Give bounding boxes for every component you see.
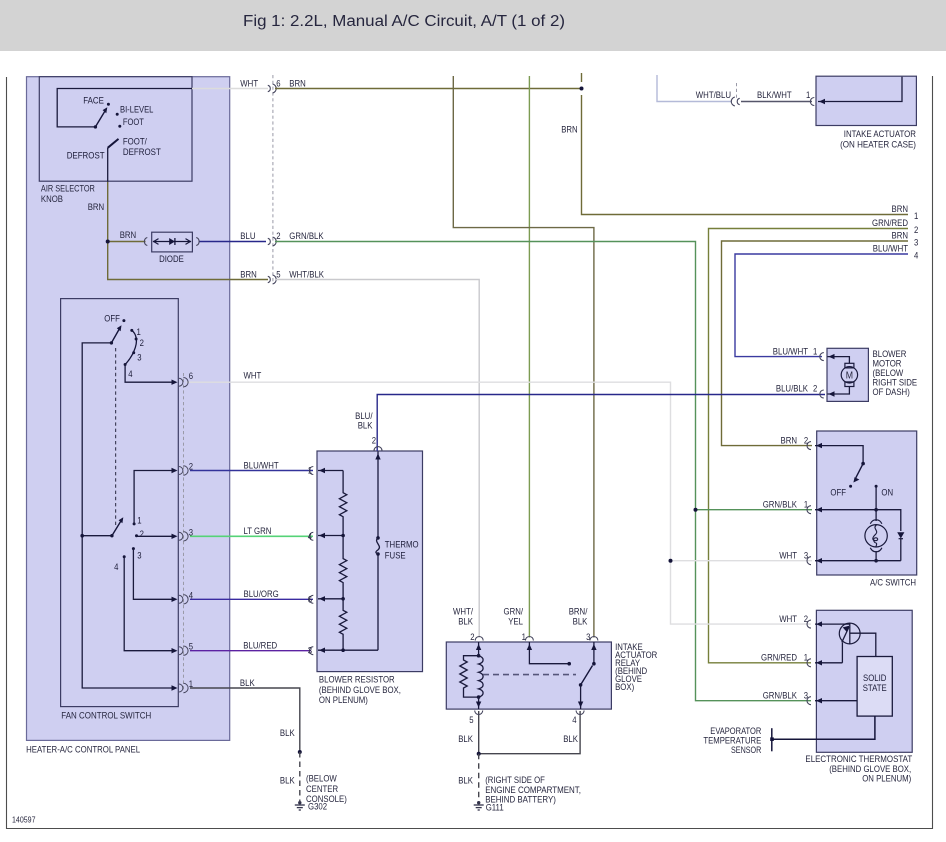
svg-text:FOOT: FOOT (123, 117, 144, 127)
wire WHT from fan switch to a/c switch and thermostat (187, 371, 813, 624)
resistor R2 (339, 536, 346, 599)
svg-text:ON: ON (881, 488, 893, 498)
wire BLK fan switch to ground G302 (190, 678, 300, 752)
wire BRN/BLK from top to relay pin 3 (453, 76, 594, 638)
fuse thermo fuse (376, 536, 419, 560)
pin ac switch 1 label (763, 499, 809, 509)
svg-text:SENSOR: SENSOR (731, 745, 762, 755)
svg-text:5: 5 (276, 270, 280, 280)
svg-text:TEMPERATURE: TEMPERATURE (703, 736, 761, 746)
svg-text:1: 1 (914, 211, 918, 221)
pin thermostat 2 label (779, 614, 808, 624)
motor M1 (841, 363, 857, 386)
connector ac switch pin 1 (807, 506, 811, 514)
wire GRN/YEL vertical to relay pin 1 (528, 76, 530, 638)
connector C2 arcs (731, 97, 739, 106)
svg-text:KNOB: KNOB (41, 194, 63, 204)
svg-text:6: 6 (189, 371, 193, 381)
wire motor pin1 internal (828, 354, 850, 363)
svg-text:4: 4 (128, 369, 132, 379)
svg-text:BLU/: BLU/ (355, 411, 373, 421)
wire relay pin3 to contact (591, 642, 596, 666)
pin motor 2 label (776, 384, 817, 394)
pin thermostat 1 label (761, 653, 808, 663)
wire ac switch pin3 internal (815, 558, 901, 563)
svg-text:3: 3 (308, 646, 312, 656)
svg-text:GRN/RED: GRN/RED (761, 653, 797, 663)
svg-text:WHT/BLK: WHT/BLK (289, 270, 324, 280)
node BLK splice G302 (298, 750, 302, 754)
transistor Q1 (839, 623, 876, 663)
connector resistor pin 6 (308, 594, 314, 604)
wire resistor pin6 entry (318, 596, 345, 601)
switch SW4 a/c (830, 462, 893, 498)
svg-text:3: 3 (804, 690, 808, 700)
ground G111 (474, 775, 581, 812)
coil relay L1 (479, 656, 484, 697)
svg-text:(BEHIND GLOVE BOX,: (BEHIND GLOVE BOX, (319, 685, 401, 695)
svg-text:WHT/: WHT/ (453, 606, 473, 616)
wire ac switch pin1 internal (815, 507, 901, 531)
node WHT junction (669, 559, 673, 563)
svg-text:3: 3 (137, 551, 141, 561)
connector fan switch pin 6 (179, 371, 193, 387)
wire BLK dashed to ground G111 (458, 754, 479, 801)
svg-text:FACE: FACE (83, 96, 104, 106)
svg-text:Fig 1: 2.2L, Manual A/C Circui: Fig 1: 2.2L, Manual A/C Circuit, A/T (1 … (243, 13, 565, 30)
connector C1 pin 5 arcs (268, 275, 276, 284)
svg-text:6: 6 (276, 78, 280, 88)
pin motor 1 label (773, 346, 818, 356)
resistor relay shunt (460, 656, 479, 697)
resistor R3 (339, 599, 346, 650)
blower resistor box (317, 451, 423, 705)
wire fan switch common rail (80, 343, 177, 691)
wire BRN from right edge to a/c switch pin 2 (722, 231, 919, 446)
svg-text:4: 4 (114, 562, 118, 572)
svg-text:(BEHIND GLOVE BOX,: (BEHIND GLOVE BOX, (829, 764, 911, 774)
svg-text:4: 4 (914, 251, 918, 261)
switch SW1 air selector wiper (94, 107, 108, 128)
svg-text:WHT: WHT (244, 371, 262, 381)
svg-text:GRN/BLK: GRN/BLK (763, 499, 798, 509)
wire ac switch pin2 internal (815, 443, 863, 464)
svg-text:CENTER: CENTER (306, 784, 338, 794)
wire intake actuator internal (818, 77, 902, 104)
svg-text:2: 2 (189, 462, 193, 472)
wire fan lower contact1 to pin 2 (134, 468, 177, 524)
svg-text:BRN: BRN (561, 125, 578, 135)
svg-text:BRN/: BRN/ (569, 606, 588, 616)
lamp a/c indicator (865, 510, 887, 563)
intake actuator box (816, 76, 916, 149)
switch SW3 fan rotary lower (110, 516, 144, 573)
connector ac switch pin 2 (807, 442, 811, 450)
pin ac switch 3 label (779, 550, 808, 560)
wire relay mechanical link dashed (483, 674, 576, 676)
connector C2 dashed stub (736, 83, 738, 100)
connector C1 pin 2 arcs (268, 237, 276, 246)
connector resistor pin 4 (308, 531, 314, 541)
connector resistor pin 1 (308, 466, 314, 476)
svg-text:THERMO: THERMO (385, 540, 419, 550)
solid state module (857, 657, 892, 717)
svg-text:1: 1 (806, 90, 810, 100)
connector thermostat pin 1 (807, 659, 811, 667)
connector fan switch pin 4 (179, 590, 193, 604)
svg-text:GRN/BLK: GRN/BLK (289, 231, 324, 241)
node BRN diode junction (106, 240, 110, 244)
wire fan lower contact3 to pin 4 (133, 549, 177, 602)
svg-text:4: 4 (572, 715, 576, 725)
wire BLU/ORG fan switch to resistor pin 6 (190, 589, 313, 599)
svg-text:ON PLENUM): ON PLENUM) (319, 695, 368, 705)
wire thermostat pin1 internal (815, 660, 842, 665)
svg-text:5: 5 (469, 715, 473, 725)
connector motor pin 2 (820, 390, 824, 398)
svg-text:BLK: BLK (458, 776, 473, 786)
wire BRN dashed stub up (581, 73, 583, 82)
svg-text:HEATER-A/C CONTROL PANEL: HEATER-A/C CONTROL PANEL (26, 745, 140, 755)
svg-text:3: 3 (137, 353, 141, 363)
svg-text:BLK: BLK (573, 616, 588, 626)
resistor R1 (339, 471, 346, 536)
svg-text:BOX): BOX) (615, 682, 634, 692)
wire GRN/RED from right edge to thermostat pin 1 (709, 218, 919, 663)
air selector knob box (39, 77, 192, 204)
wire BLU/WHT from right edge to blower motor pin 1 (735, 244, 918, 357)
fan control switch box (61, 299, 179, 721)
node BI-LEVEL contact (116, 105, 154, 116)
svg-text:GRN/BLK: GRN/BLK (763, 690, 798, 700)
wire BLU from diode to connector C1 (199, 231, 266, 241)
svg-text:6: 6 (308, 594, 312, 604)
svg-text:LT GRN: LT GRN (244, 526, 272, 536)
wire BLU/WHT fan switch to resistor pin 1 (190, 460, 313, 470)
svg-text:2: 2 (804, 435, 808, 445)
connector thermostat pin 3 (807, 697, 811, 705)
svg-text:OFF: OFF (830, 488, 846, 498)
wire BLU/RED fan switch to resistor pin 3 (190, 641, 311, 651)
svg-text:BLU: BLU (240, 231, 255, 241)
svg-text:BLK: BLK (358, 421, 373, 431)
svg-text:1: 1 (813, 346, 817, 356)
svg-text:WHT: WHT (779, 550, 797, 560)
wire WHT/BLU top right (657, 75, 732, 102)
connector relay pin 5 (469, 711, 483, 726)
connector fan switch pin 3 (179, 527, 193, 541)
connector ac switch pin 3 (807, 557, 811, 565)
svg-text:BLU/ORG: BLU/ORG (244, 589, 279, 599)
svg-text:BLK: BLK (563, 734, 578, 744)
svg-text:1: 1 (522, 632, 526, 642)
connector relay pin 4 (572, 711, 584, 726)
svg-text:1: 1 (804, 499, 808, 509)
connector relay pin 3 (569, 606, 598, 642)
svg-text:BRN: BRN (88, 202, 105, 212)
svg-text:BRN: BRN (892, 204, 909, 214)
svg-text:SOLID: SOLID (863, 673, 887, 683)
svg-text:1: 1 (804, 653, 808, 663)
wire relay coil to pin 5 (476, 695, 481, 709)
svg-text:BRN: BRN (781, 435, 798, 445)
switch SW2 fan rotary upper (104, 314, 144, 380)
svg-text:2: 2 (813, 384, 817, 394)
svg-text:BRN: BRN (120, 230, 137, 240)
svg-text:1: 1 (137, 327, 141, 337)
svg-text:3: 3 (804, 550, 808, 560)
connector fan switch dashed harness line (183, 373, 185, 691)
a/c switch box (817, 431, 917, 588)
svg-text:GRN/: GRN/ (504, 606, 524, 616)
svg-text:2: 2 (470, 632, 474, 642)
svg-text:2: 2 (140, 529, 144, 539)
connector relay pin 2 (453, 606, 483, 642)
heater-a/c control panel box (26, 77, 230, 755)
wire ac switch ON to pin1 rail (874, 486, 878, 511)
svg-text:140597: 140597 (12, 815, 36, 825)
connector fan switch pin 5 (179, 642, 193, 656)
wire BLK/WHT to intake actuator (741, 90, 812, 102)
svg-text:2: 2 (914, 225, 918, 235)
svg-text:BLU/RED: BLU/RED (243, 641, 277, 651)
wire BRN from connector to junction (275, 78, 582, 88)
svg-text:3: 3 (189, 527, 193, 537)
connector C1 pin 6 arcs (268, 84, 276, 93)
svg-text:MOTOR: MOTOR (873, 359, 902, 369)
wire BLK dashed to ground G302 (280, 752, 300, 801)
svg-text:1: 1 (189, 679, 193, 689)
node FACE contact (83, 96, 110, 106)
svg-text:BLK: BLK (280, 728, 295, 738)
svg-text:(RIGHT SIDE OF: (RIGHT SIDE OF (485, 775, 545, 785)
svg-text:BLK: BLK (458, 616, 473, 626)
connector C1 dashed harness line (272, 75, 274, 284)
wire relay coil feed (476, 642, 481, 658)
svg-text:2: 2 (804, 614, 808, 624)
svg-text:BLOWER: BLOWER (873, 349, 907, 359)
svg-text:RIGHT SIDE: RIGHT SIDE (873, 378, 918, 388)
wire WHT from air selector to connector C1 (192, 78, 268, 88)
svg-text:3: 3 (586, 632, 590, 642)
wire fan switch contact4 to pin 6 (125, 365, 177, 385)
wire LT GRN fan switch to resistor pin 4 (190, 526, 313, 536)
wire BLU/BLK from blower resistor to blower motor (355, 395, 825, 452)
svg-text:BLU/WHT: BLU/WHT (773, 346, 808, 356)
wire resistor pin2 entry vertical (375, 452, 380, 651)
svg-text:(ON HEATER CASE): (ON HEATER CASE) (840, 140, 916, 150)
wire fan lower contact2 to pin 3 (137, 534, 178, 539)
svg-text:INTAKE ACTUATOR: INTAKE ACTUATOR (844, 129, 916, 139)
svg-text:WHT: WHT (240, 78, 258, 88)
wire BLK relay pin 5 to ground G111 (458, 711, 479, 754)
svg-text:2: 2 (372, 436, 376, 446)
node BRN junction top (580, 87, 584, 91)
wire BRN defrost to diode and connector (88, 182, 268, 280)
svg-text:DEFROST: DEFROST (123, 147, 161, 157)
svg-text:BRN: BRN (240, 270, 256, 280)
svg-text:BLK: BLK (280, 776, 295, 786)
svg-text:GRN/RED: GRN/RED (872, 218, 908, 228)
wire WHT/BLK from connector to relay pin 2 (275, 270, 479, 638)
svg-text:DIODE: DIODE (159, 254, 184, 264)
evaporator temperature sensor (703, 716, 875, 755)
wire thermostat pin2 internal (815, 621, 840, 626)
svg-text:BLK: BLK (240, 678, 255, 688)
svg-text:AIR SELECTOR: AIR SELECTOR (41, 184, 95, 194)
pin thermostat 3 label (763, 690, 808, 700)
svg-text:1: 1 (308, 466, 312, 476)
connector thermostat pin 2 (807, 620, 811, 628)
svg-text:BRN: BRN (892, 231, 909, 241)
svg-text:BI-LEVEL: BI-LEVEL (120, 105, 153, 115)
svg-text:1: 1 (137, 516, 141, 526)
connector relay pin 1 (504, 606, 534, 642)
svg-text:FAN CONTROL SWITCH: FAN CONTROL SWITCH (61, 711, 151, 721)
diode ac switch D2 (897, 532, 904, 561)
svg-text:BRN: BRN (289, 78, 306, 88)
node BLK splice G111 (477, 752, 481, 756)
title bar (0, 0, 946, 51)
svg-text:4: 4 (308, 531, 312, 541)
wire BLK relay pin 4 to splice (479, 711, 580, 754)
svg-text:(BELOW: (BELOW (306, 774, 337, 784)
svg-text:YEL: YEL (508, 616, 523, 626)
wire air selector common (57, 89, 192, 127)
svg-text:STATE: STATE (863, 683, 887, 693)
svg-text:2: 2 (276, 231, 280, 241)
wire fan switch mechanical link dashed (115, 348, 117, 527)
node FOOT/DEFROST contact (108, 137, 161, 158)
svg-text:5: 5 (189, 642, 193, 652)
svg-text:OFF: OFF (104, 314, 120, 324)
svg-text:BLU/BLK: BLU/BLK (776, 384, 809, 394)
switch relay armature (578, 666, 593, 710)
connector resistor pin 3 (308, 646, 314, 656)
svg-text:BLOWER RESISTOR: BLOWER RESISTOR (319, 675, 395, 685)
svg-text:DEFROST: DEFROST (67, 151, 105, 161)
svg-text:ON PLENUM): ON PLENUM) (862, 774, 911, 784)
svg-text:FUSE: FUSE (385, 551, 406, 561)
wire motor pin2 internal (828, 387, 850, 397)
wire GRN/BLK from connector to a/c switch and thermostat (275, 231, 812, 701)
wire defrost inside box (107, 148, 109, 182)
node GRN/BLK junction (694, 508, 698, 512)
wire resistor pin4 entry (318, 533, 345, 538)
svg-text:BLU/WHT: BLU/WHT (244, 460, 279, 470)
svg-text:G302: G302 (308, 802, 327, 812)
svg-text:BLK/WHT: BLK/WHT (757, 90, 792, 100)
svg-text:ELECTRONIC THERMOSTAT: ELECTRONIC THERMOSTAT (805, 754, 912, 764)
svg-text:G111: G111 (486, 802, 504, 812)
connector intake actuator pin 1 (810, 98, 814, 106)
diode D1 (144, 232, 199, 264)
svg-text:2: 2 (140, 338, 144, 348)
svg-text:BLU/WHT: BLU/WHT (873, 244, 908, 254)
svg-text:4: 4 (189, 590, 193, 600)
connector fan switch pin 1 (179, 679, 193, 693)
svg-text:WHT: WHT (779, 614, 797, 624)
svg-text:FOOT/: FOOT/ (123, 137, 147, 147)
svg-text:BLK: BLK (458, 734, 473, 744)
svg-text:A/C SWITCH: A/C SWITCH (870, 578, 916, 588)
svg-text:WHT/BLU: WHT/BLU (696, 90, 731, 100)
connector motor pin 1 (820, 353, 824, 361)
electronic thermostat box (805, 610, 912, 783)
wire BRN 1 to right edge (561, 95, 918, 221)
wire relay pin1 to contact (527, 642, 571, 666)
svg-text:EVAPORATOR: EVAPORATOR (710, 726, 761, 736)
svg-text:M: M (846, 370, 853, 382)
intake actuator relay box (446, 642, 657, 709)
wire resistor pin3 entry and bottom rail (318, 648, 378, 653)
node FOOT contact (118, 117, 144, 128)
pin ac switch 2 label (781, 435, 809, 445)
wire thermostat pin3 internal (815, 698, 857, 703)
wire fan lower contact4 to pin 5 (124, 557, 177, 654)
wire resistor pin1 entry (318, 468, 343, 473)
ground G302 (295, 774, 347, 812)
svg-text:3: 3 (914, 238, 918, 248)
svg-text:(BELOW: (BELOW (873, 368, 904, 378)
blower motor box (827, 348, 917, 401)
svg-text:OF DASH): OF DASH) (873, 387, 910, 397)
connector resistor pin 2 (372, 436, 382, 451)
connector fan switch pin 2 (179, 462, 193, 476)
